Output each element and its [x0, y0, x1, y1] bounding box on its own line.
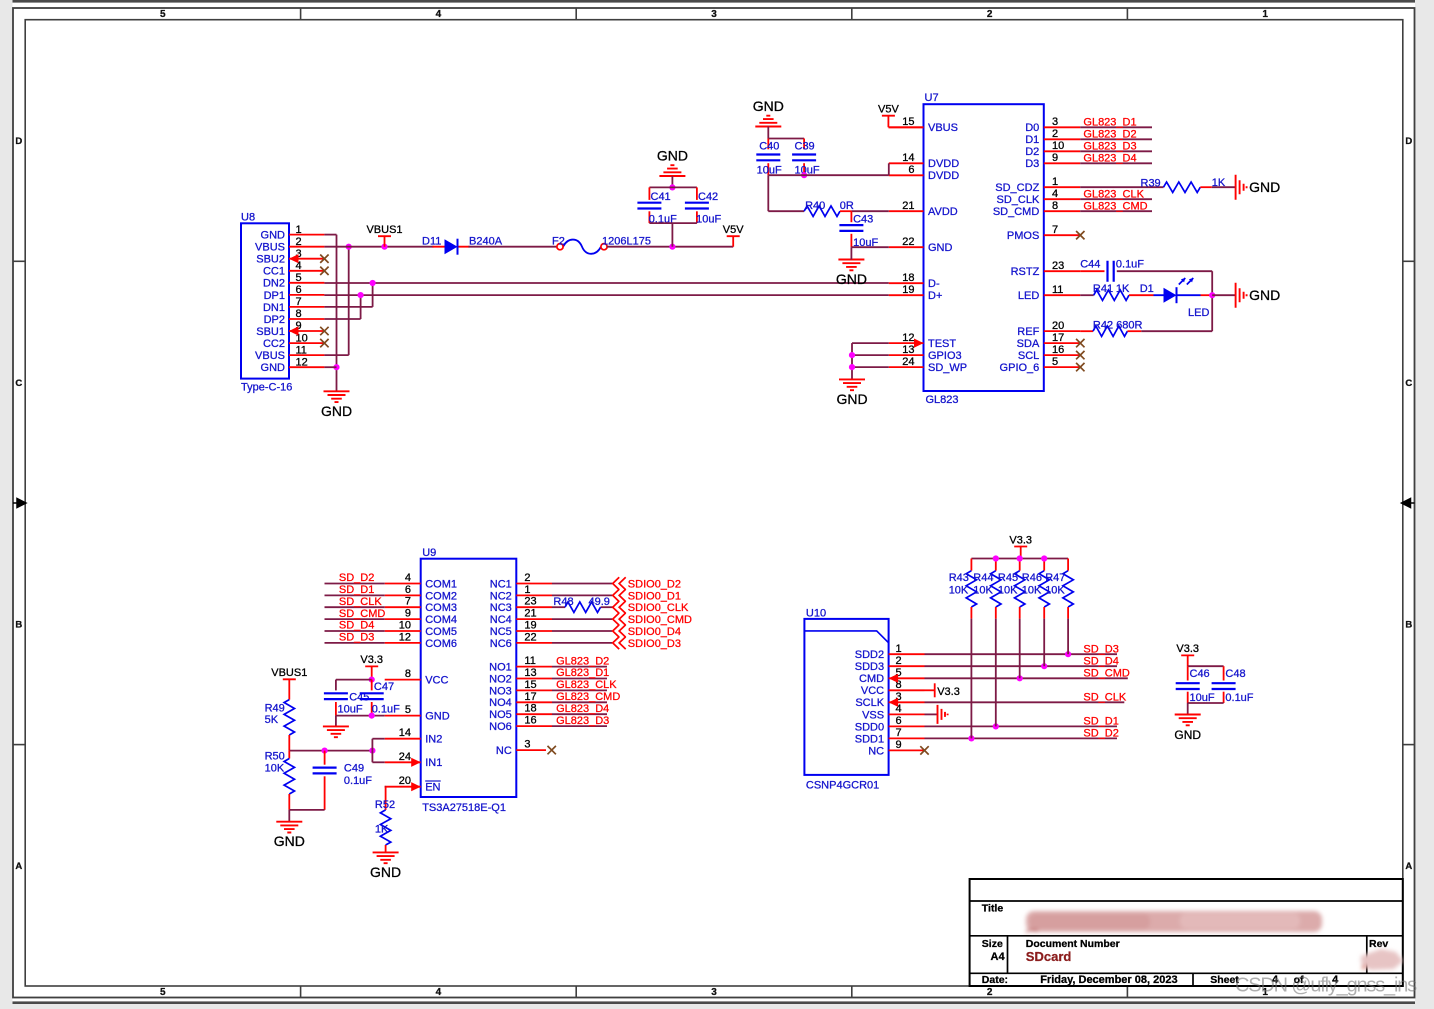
svg-text:R40: R40 [805, 200, 825, 212]
svg-text:1206L175: 1206L175 [602, 236, 651, 248]
U10 pin 6 SDD0 [889, 725, 925, 727]
svg-text:GND: GND [1174, 728, 1201, 742]
svg-text:GL823_D4: GL823_D4 [556, 703, 609, 715]
U9 pin 15 NO3 [516, 689, 552, 691]
wire net GL823_D3 [1080, 150, 1152, 152]
wire VSS to ground [925, 713, 938, 715]
U8 pin 4 CC1 [289, 270, 324, 272]
wire U8 VBUS vertical bus [348, 247, 350, 355]
svg-text:C: C [1405, 378, 1412, 389]
svg-text:Rev: Rev [1369, 938, 1388, 950]
U9 pin 24 IN1 [385, 761, 421, 763]
wire to R40 [768, 210, 804, 212]
vertical TEST/GPIO3/SD_WP bus [851, 343, 853, 379]
svg-text:LED: LED [1188, 307, 1209, 319]
wire net GL823_CLK [1080, 198, 1152, 200]
wire R39 to ground [1200, 186, 1212, 188]
svg-text:C43: C43 [853, 214, 873, 226]
title block column lines [1008, 936, 1367, 986]
connector U8 body [241, 223, 289, 378]
wire R52 to ground [385, 845, 387, 852]
svg-text:23: 23 [524, 596, 536, 608]
wire R50 bottom [288, 794, 290, 810]
U10 pin 3 SCLK [889, 701, 925, 703]
resistor R48 49.9 on NC3 row [565, 602, 601, 612]
power symbol VBUS1 [378, 236, 391, 247]
svg-text:3: 3 [711, 9, 717, 20]
wire EN to R52 [384, 786, 387, 788]
svg-text:SD_CDZ: SD_CDZ [995, 182, 1039, 194]
svg-text:V3.3: V3.3 [937, 686, 960, 698]
IC U9 body [421, 559, 517, 797]
svg-text:SBU2: SBU2 [256, 254, 285, 266]
svg-text:CC1: CC1 [263, 266, 285, 278]
svg-text:NC: NC [496, 745, 512, 757]
svg-text:SDIO0_D1: SDIO0_D1 [628, 590, 681, 602]
svg-text:5K: 5K [265, 714, 279, 726]
svg-text:10K: 10K [949, 585, 969, 597]
junction pull-up SD_D3 [1065, 651, 1071, 657]
svg-text:U10: U10 [806, 608, 826, 620]
svg-text:NC1: NC1 [490, 578, 512, 590]
svg-text:0.1uF: 0.1uF [1225, 692, 1253, 704]
wire LED to junction [1201, 294, 1213, 296]
svg-text:2: 2 [296, 236, 302, 248]
svg-text:4: 4 [436, 987, 442, 998]
svg-text:0.1uF: 0.1uF [344, 775, 372, 787]
ground symbol right of LED [1236, 283, 1247, 308]
svg-text:SDD2: SDD2 [855, 649, 884, 661]
wire net SDIO0_D4 [552, 630, 612, 632]
svg-text:16: 16 [524, 715, 536, 727]
C46/C48 bottom rail [1188, 702, 1224, 704]
resistor R45 10K [1019, 559, 1021, 571]
svg-text:SD_CMD: SD_CMD [339, 608, 386, 620]
svg-text:V3.3: V3.3 [1176, 643, 1199, 655]
svg-text:12: 12 [902, 332, 914, 344]
U9 pin 16 NO6 [516, 725, 552, 727]
diode D11 B240A [433, 246, 470, 248]
svg-text:NO6: NO6 [489, 721, 512, 733]
svg-text:6: 6 [405, 584, 411, 596]
U7 pin 17 SDA [1044, 342, 1080, 344]
wire U8 GND vertical bus [336, 235, 338, 392]
U10 pin 4 VSS [889, 713, 925, 715]
svg-text:CSDN @ufly_gnss_ins: CSDN @ufly_gnss_ins [1235, 975, 1417, 997]
resistor R41 1K [1094, 290, 1129, 300]
svg-text:B: B [1405, 619, 1412, 630]
svg-text:V5V: V5V [878, 104, 899, 116]
svg-text:V3.3: V3.3 [1009, 534, 1032, 546]
svg-text:DN1: DN1 [263, 302, 285, 314]
U7 pin 19 D+ [889, 294, 924, 296]
capacitor C49 0.1uF [324, 751, 326, 765]
U10 CMD input arrow [889, 674, 899, 683]
off-page connector SDIO0_CMD [613, 613, 626, 625]
svg-text:U8: U8 [241, 212, 255, 224]
U9 pin 3 NC [516, 749, 546, 751]
U9 pin 5 GND [385, 715, 421, 717]
svg-text:C46: C46 [1190, 668, 1210, 680]
wire R42 to corner [1127, 330, 1141, 332]
wire net GL823_D1 [552, 678, 607, 680]
U8 pin 3 SBU2 [289, 258, 324, 260]
svg-text:C47: C47 [374, 681, 394, 693]
wire VBUS net to diode [324, 246, 433, 248]
svg-text:7: 7 [405, 596, 411, 608]
svg-text:1K: 1K [375, 823, 389, 835]
wire DP2 vertical jog [360, 295, 362, 319]
U10 SCLK input arrow [889, 698, 899, 707]
svg-text:1: 1 [1262, 9, 1268, 20]
no-connect X on SDA [1076, 339, 1084, 347]
U7 pin 4 SD_CLK [1044, 198, 1080, 200]
power symbol V3.3 above U9 VCC [365, 666, 378, 679]
svg-text:VBUS1: VBUS1 [366, 224, 402, 236]
resistor R49 5K [284, 700, 294, 735]
svg-text:D: D [15, 136, 22, 147]
wire net GL823_D4 [1080, 162, 1152, 164]
U7 pin 8 SD_CMD [1044, 210, 1080, 212]
svg-text:10uF: 10uF [696, 213, 721, 225]
U8 pin 12 GND [289, 366, 324, 368]
resistor R39 1K [1164, 182, 1201, 192]
U9 pin 20 EN [385, 786, 421, 788]
junction pull-up SD_D4 [1041, 663, 1047, 669]
svg-text:GL823_D2: GL823_D2 [1083, 129, 1136, 141]
svg-text:IN2: IN2 [425, 734, 442, 746]
svg-text:R44: R44 [973, 572, 993, 584]
svg-text:GND: GND [321, 403, 352, 419]
wire net GL823_D2 [552, 666, 607, 668]
svg-text:8: 8 [405, 668, 411, 680]
U9 pin 9 COM4 [385, 618, 421, 620]
svg-text:19: 19 [902, 284, 914, 296]
svg-text:4: 4 [405, 572, 411, 584]
svg-text:NC4: NC4 [490, 614, 512, 626]
svg-text:SDIO0_CMD: SDIO0_CMD [628, 614, 692, 626]
svg-text:10K: 10K [1045, 585, 1065, 597]
wire LED node to ground [1212, 294, 1235, 296]
svg-text:R41: R41 [1093, 283, 1113, 295]
junction DVDD rail at C39 [801, 172, 807, 178]
wire net SD_CLK [925, 701, 1125, 703]
svg-text:15: 15 [524, 679, 536, 691]
svg-text:COM1: COM1 [425, 578, 457, 590]
page edge dark strips [13, 0, 1416, 3]
svg-text:R49: R49 [265, 702, 285, 714]
svg-text:CC2: CC2 [263, 338, 285, 350]
svg-text:GL823: GL823 [926, 394, 959, 406]
U9 pin 10 COM5 [385, 630, 421, 632]
U7 pin 10 D2 [1044, 150, 1080, 152]
capacitor C42 10uF [696, 187, 698, 200]
junction C49 top [322, 748, 328, 754]
junction U8 GND pin12 [333, 364, 339, 370]
svg-text:VBUS: VBUS [255, 350, 285, 362]
svg-text:6: 6 [896, 715, 902, 727]
svg-text:6: 6 [908, 164, 914, 176]
wire TEST net [852, 342, 889, 344]
cap bottom rail [649, 222, 697, 224]
resistor R50 10K [288, 751, 290, 759]
ground symbol below U8 [324, 391, 350, 402]
svg-text:2: 2 [987, 9, 993, 20]
wire LED pin to R41 [1080, 294, 1094, 296]
svg-text:14: 14 [399, 727, 411, 739]
U7 pin 1 SD_CDZ [1044, 186, 1080, 188]
DVDD rail wire [768, 174, 889, 176]
svg-text:14: 14 [902, 152, 914, 164]
svg-text:U9: U9 [422, 547, 436, 559]
ground symbol below C46 [1187, 703, 1189, 715]
svg-text:9: 9 [896, 739, 902, 751]
frame column ticks bottom [300, 986, 302, 998]
svg-text:7: 7 [896, 727, 902, 739]
svg-text:SD_CLK: SD_CLK [1083, 692, 1126, 704]
svg-text:2: 2 [896, 655, 902, 667]
svg-text:49.9: 49.9 [589, 596, 610, 608]
svg-text:4: 4 [436, 9, 442, 20]
junction cap top rail [669, 184, 675, 190]
capacitor C44 0.1uF [1108, 261, 1114, 282]
frame column ticks top [300, 8, 302, 20]
svg-text:COM3: COM3 [425, 602, 457, 614]
resistor R42 680R [1093, 326, 1127, 336]
U9 pin 1 NC2 [516, 594, 552, 596]
svg-text:Type-C-16: Type-C-16 [241, 382, 292, 394]
svg-text:0.1uF: 0.1uF [372, 704, 400, 716]
svg-text:15: 15 [902, 116, 914, 128]
capacitor C40 10uF [767, 139, 769, 150]
svg-text:5: 5 [296, 272, 302, 284]
svg-text:24: 24 [399, 751, 411, 763]
U7 pin 9 D3 [1044, 162, 1080, 164]
svg-text:SD_D3: SD_D3 [1083, 644, 1118, 656]
svg-text:VCC: VCC [861, 685, 884, 697]
wire node row [289, 750, 372, 752]
svg-text:17: 17 [1052, 332, 1064, 344]
svg-text:10K: 10K [973, 585, 993, 597]
wire net SD_D1 [925, 725, 1118, 727]
svg-text:B: B [15, 619, 22, 630]
U9 pin 6 COM2 [385, 594, 421, 596]
U10 pin 2 SDD3 [889, 665, 925, 667]
cap C41/C42 top rail [649, 186, 697, 188]
no-connect X on SBU2 [320, 255, 328, 263]
U7 pin 14 DVDD [889, 162, 924, 164]
svg-text:10K: 10K [265, 762, 285, 774]
junction VBUS pin2 [346, 244, 352, 250]
wire net SD_CMD [325, 618, 385, 620]
wire net SD_CLK [325, 606, 385, 608]
blurred title content [1026, 911, 1322, 932]
svg-text:10: 10 [1052, 140, 1064, 152]
svg-text:R52: R52 [375, 799, 395, 811]
svg-text:R50: R50 [265, 751, 285, 763]
wire R41 to LED diode [1129, 294, 1154, 296]
wire DN1 horizontal [324, 306, 372, 308]
svg-text:SDD3: SDD3 [855, 661, 884, 673]
junction pull-up SD_D1 [993, 723, 999, 729]
C40/C39 top rail [768, 138, 804, 140]
wire net SDIO0_CMD [552, 618, 612, 620]
junction D- jog [370, 280, 376, 286]
svg-text:C42: C42 [698, 191, 718, 203]
svg-text:R39: R39 [1141, 178, 1161, 190]
svg-text:R47: R47 [1045, 572, 1065, 584]
wire net SD_D3 [325, 642, 385, 644]
R46 vertical wire to row [1043, 619, 1045, 667]
svg-text:23: 23 [1052, 260, 1064, 272]
svg-text:9: 9 [405, 608, 411, 620]
IC U10 body [804, 619, 888, 775]
svg-text:GND: GND [425, 711, 450, 723]
no-connect X on U9 NC [548, 746, 556, 754]
off-page connector SDIO0_D4 [613, 625, 626, 637]
junction pull-up SD_CMD [1017, 675, 1023, 681]
svg-text:F2: F2 [552, 236, 565, 248]
U9 pin 17 NO4 [516, 701, 552, 703]
wire net GL823_D2 [1080, 138, 1152, 140]
svg-text:DN2: DN2 [263, 278, 285, 290]
svg-text:1: 1 [896, 643, 902, 655]
junction pull-up rail [993, 555, 999, 561]
svg-text:C49: C49 [344, 762, 364, 774]
svg-text:NO3: NO3 [489, 685, 512, 697]
U9 pin 19 NC5 [516, 630, 552, 632]
C46/C48 top rail [1188, 665, 1224, 667]
svg-text:GND: GND [1249, 287, 1280, 303]
svg-text:SCLK: SCLK [855, 697, 884, 709]
junction GPIO3 [849, 352, 855, 358]
svg-text:5: 5 [160, 987, 166, 998]
svg-text:GND: GND [657, 148, 688, 164]
svg-text:GND: GND [928, 242, 953, 254]
junction pull-up rail [1041, 555, 1047, 561]
wire VCC rail left [336, 679, 372, 681]
U7 pin 24 SD_WP [889, 366, 924, 368]
junction VBUS1 tap [381, 244, 387, 250]
svg-text:1: 1 [296, 224, 302, 236]
svg-text:0.1uF: 0.1uF [1116, 259, 1144, 271]
capacitor C47 0.1uF [371, 680, 373, 691]
svg-text:11: 11 [296, 344, 307, 356]
U7 TEST input arrow [914, 339, 924, 348]
svg-text:SD_D3: SD_D3 [339, 632, 374, 644]
svg-text:A4: A4 [991, 951, 1006, 963]
wire net SD_D4 [925, 665, 1118, 667]
U10 bevel line [804, 631, 888, 643]
frame mid arrow right [1402, 499, 1415, 508]
svg-text:SDIO0_D4: SDIO0_D4 [628, 626, 681, 638]
resistor R44 10K [995, 559, 997, 571]
U9 pin 2 NC1 [516, 583, 552, 585]
svg-text:SDD1: SDD1 [855, 733, 884, 745]
U10 pin 1 SDD2 [889, 653, 925, 655]
svg-text:SCL: SCL [1018, 350, 1039, 362]
wire diode to fuse [469, 246, 558, 248]
svg-text:NO5: NO5 [489, 709, 512, 721]
wire DN1 vertical jog [372, 283, 374, 307]
svg-text:R46: R46 [1022, 572, 1042, 584]
U8 pin 3 SBU2 input arrow [289, 254, 299, 263]
svg-text:0R: 0R [840, 200, 854, 212]
svg-text:20: 20 [399, 775, 411, 787]
no-connect X on GPIO_6 [1076, 363, 1084, 371]
wire net SDIO0_CLK [552, 606, 565, 608]
svg-text:Title: Title [982, 903, 1004, 915]
wire DP2 horizontal [324, 318, 360, 320]
svg-text:18: 18 [524, 703, 536, 715]
wire V5V to VBUS pin [888, 126, 923, 128]
svg-text:SD_CLK: SD_CLK [997, 194, 1040, 206]
power symbol V5V (right) [727, 236, 740, 247]
svg-text:D11: D11 [422, 236, 441, 248]
svg-text:GL823_CMD: GL823_CMD [556, 691, 620, 703]
U8 pin 1 GND [289, 234, 324, 236]
off-page connector SDIO0_D1 [613, 589, 626, 601]
svg-text:NC: NC [868, 745, 884, 757]
svg-text:PMOS: PMOS [1007, 230, 1039, 242]
title block border [970, 879, 1403, 986]
R47 vertical wire to row [1067, 619, 1069, 655]
svg-text:Friday, December 08, 2023: Friday, December 08, 2023 [1040, 974, 1177, 986]
svg-text:COM6: COM6 [425, 638, 457, 650]
no-connect X on SCL [1076, 351, 1084, 359]
ground symbol above C41/C42 [659, 165, 685, 176]
U10 pin 5 CMD [889, 677, 925, 679]
frame row ticks left [13, 260, 25, 262]
R45 vertical wire to row [1019, 619, 1021, 679]
U10 pin 7 SDD1 [889, 737, 925, 739]
wire RSTZ to C44 [1080, 270, 1104, 272]
svg-text:21: 21 [524, 608, 536, 620]
svg-text:22: 22 [524, 631, 536, 643]
U9 pin 7 COM3 [385, 606, 421, 608]
wire GPIO3 net [852, 354, 889, 356]
ground symbol right of R39 [1236, 175, 1247, 200]
U8 pin 8 DP2 [289, 318, 324, 320]
U8 pin 11 VBUS [289, 354, 324, 356]
svg-text:SD_D1: SD_D1 [339, 584, 374, 596]
wire net GL823_CMD [1080, 210, 1152, 212]
U7 pin 22 GND [889, 246, 924, 248]
ground symbol below TEST bus [839, 379, 865, 390]
resistor R43 10K [970, 559, 972, 571]
svg-text:R43: R43 [949, 572, 969, 584]
wire net SDIO0_D2 [552, 583, 612, 585]
svg-text:SDIO0_D3: SDIO0_D3 [628, 638, 681, 650]
svg-text:D1: D1 [1140, 283, 1154, 295]
svg-text:SDcard: SDcard [1026, 949, 1072, 964]
junction IN node [369, 748, 375, 754]
U7 pin 15 VBUS [889, 126, 924, 128]
svg-text:22: 22 [902, 236, 914, 248]
pull-up top rail [971, 558, 1068, 560]
ground symbol below R50 [276, 822, 302, 833]
capacitor C45 10uF [335, 680, 337, 691]
svg-text:VCC: VCC [425, 675, 448, 687]
U9 EN input arrow [411, 782, 421, 791]
svg-text:17: 17 [524, 691, 536, 703]
wire SD_CDZ to R39 [1080, 186, 1163, 188]
blurred rev stamp [1361, 949, 1403, 970]
frame mid arrow left [13, 499, 26, 508]
junction pull-up SD_D2 [968, 735, 974, 741]
U7 pin 11 LED [1044, 294, 1080, 296]
power symbol V5V at U7 VBUS [882, 116, 895, 128]
